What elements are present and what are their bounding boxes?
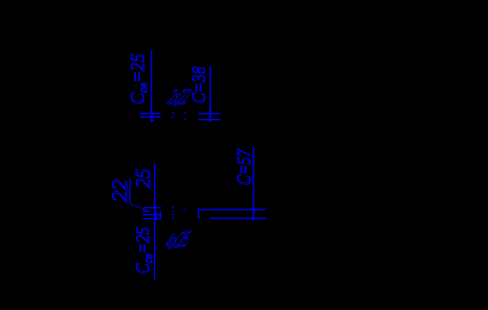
wire: top-right vertical lead of C2 xyxy=(209,66,211,121)
svg-text:25: 25 xyxy=(131,169,155,189)
wire: bottom vertical lead through C3 stack xyxy=(154,163,156,280)
capacitor C3 multi-plate stack (4x25) xyxy=(144,207,162,209)
capacitor C1 trimmer arrow marks xyxy=(149,111,154,123)
C=57 arrow marks at H1 and H2 xyxy=(252,207,256,221)
svg-text:Cсв=25: Cсв=25 xyxy=(133,227,155,275)
node dots: ellipsis between C1 and C2 xyxy=(171,105,186,121)
node dots: vertical ellipsis right of C3 xyxy=(172,206,186,219)
wire: resonator bottom line H2 xyxy=(210,217,266,219)
capacitor C2 trimmer arrow marks xyxy=(208,111,212,122)
capacitor C2 (C=38) plates xyxy=(199,114,221,120)
wire: top-left vertical lead of C1 xyxy=(151,50,153,114)
capacitor C1 (Cсв=25) plates xyxy=(140,114,161,118)
wire: resonator top line H1 with left bend xyxy=(199,210,267,220)
svg-text:22: 22 xyxy=(107,179,132,202)
wire: C=57 vertical dimension line xyxy=(253,147,255,218)
capacitor C3 arrow marks xyxy=(153,205,157,221)
svg-text:C=57: C=57 xyxy=(234,149,256,186)
svg-text:Cсв=25: Cсв=25 xyxy=(127,54,150,105)
leader line from label 22 to C3 top plate xyxy=(129,179,131,204)
